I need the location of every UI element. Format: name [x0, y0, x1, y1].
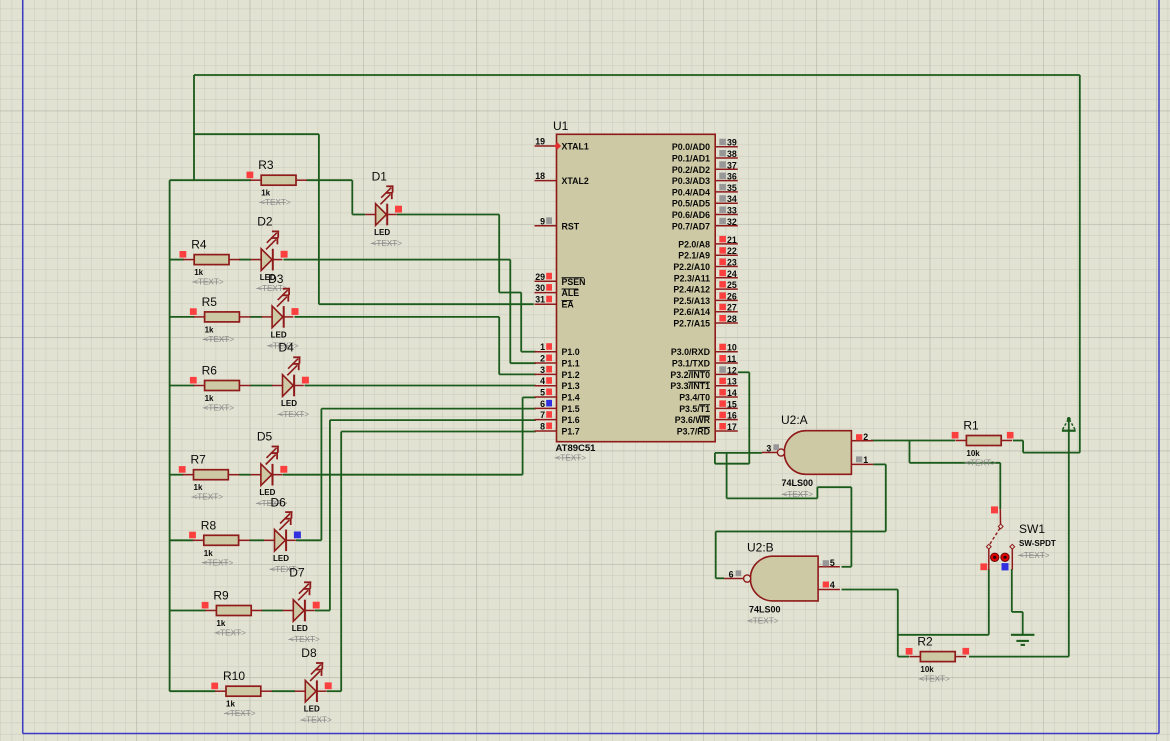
- node D8 cathode state square: [325, 682, 332, 689]
- svg-text:D8: D8: [301, 646, 317, 660]
- svg-text:30: 30: [535, 283, 545, 293]
- pin 36 state square: [719, 173, 726, 180]
- svg-text:D6: D6: [271, 495, 287, 509]
- pin 14 P3.4/T0 stub: [715, 396, 738, 398]
- svg-text:RST: RST: [562, 221, 580, 231]
- pin 3 state square: [546, 366, 552, 373]
- wire anode supply rail vertical: [169, 180, 171, 691]
- svg-text:33: 33: [727, 206, 737, 216]
- sheet border left: [22, 0, 24, 734]
- pin 9 state square: [546, 217, 552, 224]
- svg-text:38: 38: [727, 149, 737, 159]
- svg-text:P1.4: P1.4: [562, 393, 580, 403]
- svg-text:18: 18: [535, 171, 545, 181]
- pin 23 state square: [719, 259, 726, 266]
- wire P1.7 horizontal: [341, 431, 536, 433]
- wire D1 net jog horizontal: [499, 292, 521, 294]
- node D7 cathode state square: [313, 602, 320, 609]
- pin 7 P1.6 stub: [535, 419, 557, 421]
- pin 1 U2:A input stub: [851, 463, 873, 465]
- wire P1.6 horizontal: [330, 419, 536, 421]
- pin 34 state square: [719, 195, 726, 202]
- pin 11 state square: [719, 355, 726, 362]
- pin 29 state square: [546, 273, 552, 280]
- svg-text:D1: D1: [372, 170, 388, 184]
- pin 12 state square: [719, 366, 726, 373]
- wire latch cross jog vertical: [816, 487, 818, 498]
- wire VCC branch to EA horizontal: [194, 133, 319, 135]
- resistor R6: [194, 381, 251, 391]
- node R4 left state square: [180, 251, 187, 258]
- pin 17 state square: [719, 423, 726, 430]
- node D6 cathode state square: [294, 532, 301, 539]
- wire R1 right jog horizontal: [1023, 452, 1080, 454]
- wire D3 cathode horizontal: [295, 316, 500, 318]
- pin 6 state square: [546, 400, 552, 407]
- pin 6 P1.5 stub: [535, 407, 557, 409]
- pin 8 state square: [546, 423, 552, 430]
- pin 19 XTAL1 stub: [535, 145, 557, 147]
- wire D1 anode horizontal: [352, 214, 365, 216]
- node R8 left state square: [189, 532, 196, 539]
- wire U2:A pin1 vertical: [885, 464, 887, 531]
- svg-text:P0.2/AD2: P0.2/AD2: [672, 165, 710, 175]
- pin 38 P0.1/AD1 stub: [715, 157, 738, 159]
- svg-text:P2.7/A15: P2.7/A15: [673, 319, 710, 329]
- pin 27 state square: [719, 304, 726, 311]
- svg-text:LED: LED: [271, 330, 287, 339]
- wire R9 to D7 horizontal: [262, 610, 284, 612]
- wire R2 left stub horizontal: [898, 656, 909, 658]
- svg-text:P2.2/A10: P2.2/A10: [673, 262, 710, 272]
- svg-text:SW-SPDT: SW-SPDT: [1019, 539, 1056, 548]
- pin 31 EA stub: [535, 303, 557, 305]
- node R5 left state square: [190, 308, 197, 315]
- pin 25 P2.4/A12 stub: [715, 288, 738, 290]
- resistor R5: [194, 312, 251, 322]
- svg-text:3: 3: [766, 443, 771, 453]
- svg-text:28: 28: [727, 314, 737, 324]
- wire R6 to D4 horizontal: [250, 385, 273, 387]
- pin 21 state square: [719, 236, 726, 243]
- svg-text:26: 26: [727, 291, 737, 301]
- svg-text:D5: D5: [257, 430, 273, 444]
- svg-text:6: 6: [540, 399, 545, 409]
- svg-text:74LS00: 74LS00: [749, 605, 781, 615]
- svg-text:P2.5/A13: P2.5/A13: [673, 296, 710, 306]
- pin 39 state square: [719, 139, 726, 146]
- svg-text:R7: R7: [191, 453, 207, 467]
- wire U2:A pin2 to R1 horizontal: [871, 440, 955, 442]
- svg-text:6: 6: [729, 569, 734, 579]
- svg-text:R5: R5: [202, 295, 218, 309]
- node D5 cathode state square: [280, 466, 287, 473]
- svg-text:37: 37: [727, 160, 737, 170]
- wire P1.4 vertical: [522, 397, 524, 474]
- svg-text:32: 32: [727, 217, 737, 227]
- pin 28 P2.7/A15 stub: [715, 322, 738, 324]
- wire EA horizontal into pin 31: [319, 303, 534, 305]
- pin 2 state square: [546, 355, 552, 362]
- wire U2:A output jog vertical: [714, 453, 716, 464]
- resistor R1: [955, 436, 1012, 446]
- pin 24 P2.3/A11 stub: [715, 277, 738, 279]
- resistor R3: [250, 175, 307, 185]
- wire ground lead vertical: [1022, 612, 1024, 634]
- pin 5 state square: [546, 389, 552, 396]
- pin 15 P3.5/T1 stub: [715, 407, 738, 409]
- svg-text:23: 23: [727, 258, 737, 268]
- svg-text:P3.2/INT0: P3.2/INT0: [670, 370, 710, 380]
- svg-text:P2.0/A8: P2.0/A8: [678, 239, 710, 249]
- wire U2:B pin4 horizontal: [842, 589, 898, 591]
- wire D1 net vertical: [498, 215, 500, 293]
- svg-text:P3.3/INT1: P3.3/INT1: [670, 381, 710, 391]
- svg-text:34: 34: [727, 194, 737, 204]
- wire ground jog horizontal: [1012, 611, 1023, 613]
- wire R1 right stub horizontal: [1013, 440, 1023, 442]
- svg-text:2: 2: [540, 354, 545, 364]
- pin 31 state square: [546, 296, 552, 303]
- node D4 cathode state square: [302, 377, 309, 384]
- svg-text:1k: 1k: [205, 325, 214, 334]
- node SW1 left contact state square: [980, 563, 987, 570]
- svg-text:D3: D3: [268, 272, 284, 286]
- pin 21 P2.0/A8 stub: [715, 243, 738, 245]
- pin 7 state square: [546, 411, 552, 418]
- svg-text:D2: D2: [257, 215, 273, 229]
- svg-text:ALE: ALE: [562, 288, 580, 298]
- pin 19 connection diamond: [554, 142, 561, 149]
- NAND gate U2:A body: [784, 431, 851, 475]
- svg-text:R3: R3: [258, 158, 274, 172]
- wire SW1 right contact vertical: [1011, 569, 1013, 612]
- svg-text:7: 7: [540, 410, 545, 420]
- svg-text:P2.4/A12: P2.4/A12: [673, 285, 710, 295]
- wire P1.1 stub horizontal: [510, 362, 536, 364]
- svg-text:39: 39: [727, 138, 737, 148]
- node D3 cathode state square: [292, 308, 299, 315]
- resistor R9: [205, 606, 262, 616]
- svg-text:1k: 1k: [261, 189, 270, 198]
- switch SW1: [986, 509, 1014, 569]
- svg-text:P2.1/A9: P2.1/A9: [678, 251, 710, 261]
- svg-text:31: 31: [535, 295, 545, 305]
- sheet border bottom: [23, 733, 1159, 735]
- svg-text:19: 19: [535, 137, 545, 147]
- node D2 cathode state square: [281, 251, 288, 258]
- resistor R10: [215, 686, 272, 696]
- pin 37 state square: [719, 161, 726, 168]
- pin 26 P2.5/A13 stub: [715, 299, 738, 301]
- pin 17 P3.7/RD stub: [715, 430, 738, 432]
- pin 4 U2:B input stub: [818, 589, 840, 591]
- svg-text:13: 13: [727, 377, 737, 387]
- svg-text:P0.4/AD4: P0.4/AD4: [672, 187, 710, 197]
- node R6 left state square: [190, 377, 197, 384]
- pin 12 P3.2/INT0 stub: [715, 373, 738, 375]
- svg-text:LED: LED: [292, 624, 308, 633]
- pin 14 state square: [719, 389, 726, 396]
- pin 22 state square: [719, 247, 726, 254]
- wire SW1 branch vertical: [909, 441, 911, 463]
- svg-text:5: 5: [830, 558, 835, 568]
- pin 27 P2.6/A14 stub: [715, 311, 738, 313]
- svg-text:P1.1: P1.1: [562, 359, 580, 369]
- svg-text:P1.0: P1.0: [562, 347, 580, 357]
- wire R4 to D2 horizontal: [239, 259, 251, 261]
- svg-text:1k: 1k: [216, 619, 225, 628]
- resistor R8: [193, 535, 250, 545]
- pin 4 state square: [823, 582, 829, 588]
- svg-text:29: 29: [535, 272, 545, 282]
- pin 23 P2.2/A10 stub: [715, 266, 738, 268]
- svg-text:R1: R1: [963, 419, 979, 433]
- svg-text:1k: 1k: [205, 394, 214, 403]
- pin 35 P0.4/AD4 stub: [715, 191, 738, 193]
- node R7 left state square: [179, 466, 186, 473]
- svg-text:P3.1/TXD: P3.1/TXD: [672, 359, 710, 369]
- svg-text:16: 16: [727, 411, 737, 421]
- ground: [1011, 635, 1035, 645]
- node R9 left state square: [202, 602, 209, 609]
- pin 25 state square: [719, 281, 726, 288]
- wire R8 to D6 horizontal: [250, 539, 265, 541]
- svg-text:LED: LED: [281, 399, 297, 408]
- pin 15 state square: [719, 400, 726, 407]
- svg-text:10: 10: [727, 343, 737, 353]
- wire U2:B output stub horizontal: [716, 577, 724, 579]
- LED D1: [365, 185, 397, 225]
- svg-text:P3.4/T0: P3.4/T0: [679, 393, 710, 403]
- svg-text:P0.3/AD3: P0.3/AD3: [672, 176, 710, 186]
- svg-text:3: 3: [540, 365, 545, 375]
- svg-text:15: 15: [727, 399, 737, 409]
- pin 34 P0.5/AD5 stub: [715, 202, 738, 204]
- pin 10 state square: [719, 344, 726, 351]
- svg-text:D7: D7: [289, 566, 305, 580]
- wire D7 cathode horizontal: [315, 610, 330, 612]
- LED D4: [272, 356, 304, 396]
- node R2 left state square: [906, 648, 913, 655]
- wire R7 to D5 horizontal: [239, 474, 251, 476]
- pin 11 P3.1/TXD stub: [715, 362, 738, 364]
- pin 35 state square: [719, 184, 726, 191]
- svg-text:P2.6/A14: P2.6/A14: [673, 307, 710, 317]
- pin 37 P0.2/AD2 stub: [715, 168, 738, 170]
- svg-text:LED: LED: [273, 554, 289, 563]
- wire D8 cathode horizontal: [327, 690, 341, 692]
- svg-text:P1.7: P1.7: [562, 427, 580, 437]
- wire R4 row horizontal: [170, 259, 184, 261]
- pin 2 P1.1 stub: [535, 362, 557, 364]
- wire R1 right jog vertical: [1022, 441, 1024, 453]
- wire R5 row horizontal: [170, 316, 195, 318]
- svg-text:R6: R6: [202, 364, 218, 378]
- wire D5 cathode horizontal: [283, 474, 523, 476]
- pin 13 state square: [719, 378, 726, 385]
- wire R5 to D3 horizontal: [250, 316, 262, 318]
- svg-text:36: 36: [727, 172, 737, 182]
- pin 33 P0.6/AD6 stub: [715, 214, 738, 216]
- svg-text:XTAL1: XTAL1: [562, 142, 589, 152]
- pin 16 P3.6/WR stub: [715, 419, 738, 421]
- svg-text:LED: LED: [304, 705, 320, 714]
- wire R3 to D1 horizontal: [307, 179, 353, 181]
- svg-text:P1.3: P1.3: [562, 381, 580, 391]
- svg-text:PSEN: PSEN: [562, 277, 586, 287]
- svg-text:5: 5: [540, 388, 545, 398]
- node R10 left state square: [211, 683, 218, 690]
- svg-text:P3.5/T1: P3.5/T1: [679, 404, 710, 414]
- svg-text:14: 14: [727, 388, 737, 398]
- node R2 right state square: [963, 648, 970, 655]
- wire U2:B pin5 vertical: [850, 487, 852, 567]
- wire P1.0 vertical: [520, 293, 522, 352]
- svg-text:1k: 1k: [226, 700, 235, 709]
- svg-text:AT89C51: AT89C51: [556, 443, 597, 454]
- wire P3.2 stub horizontal: [738, 371, 750, 373]
- wire D1 anode vertical: [351, 180, 353, 214]
- wire SW1 feed horizontal: [910, 462, 1001, 464]
- pin 2 state square: [856, 434, 862, 440]
- pin 36 P0.3/AD3 stub: [715, 180, 738, 182]
- svg-text:10k: 10k: [920, 665, 934, 674]
- wire latch cross horizontal: [727, 497, 818, 499]
- svg-text:24: 24: [727, 269, 737, 279]
- wire SW1 contact net horizontal: [898, 634, 989, 636]
- pin 6 U2:B output stub: [724, 578, 743, 580]
- svg-text:U2:A: U2:A: [781, 413, 808, 427]
- pin 5 P1.4 stub: [535, 396, 557, 398]
- LED D6: [264, 511, 296, 551]
- LED D7: [283, 581, 315, 621]
- pin 5 U2:B input stub: [818, 566, 840, 568]
- pin 24 state square: [719, 270, 726, 277]
- wire P1.0 stub horizontal: [521, 351, 536, 353]
- wire P1.4 horizontal: [523, 396, 536, 398]
- svg-text:4: 4: [540, 376, 545, 386]
- svg-text:22: 22: [727, 246, 737, 256]
- svg-text:12: 12: [727, 365, 737, 375]
- svg-text:1k: 1k: [194, 483, 203, 492]
- wire P1.7 vertical: [340, 432, 342, 692]
- svg-text:35: 35: [727, 183, 737, 193]
- svg-text:D4: D4: [279, 341, 295, 355]
- svg-text:R10: R10: [223, 669, 245, 683]
- node R1 right state square: [1007, 432, 1014, 439]
- LED D3: [262, 288, 294, 328]
- NAND gate U2:B body: [750, 556, 818, 601]
- pin 4 state square: [546, 377, 552, 384]
- IC U1 AT89C51 body: [557, 134, 716, 441]
- wire VCC left drop vertical: [193, 75, 195, 180]
- svg-text:P0.7/AD7: P0.7/AD7: [672, 221, 710, 231]
- pin 16 state square: [719, 412, 726, 419]
- pin 6 state square: [736, 570, 742, 576]
- svg-text:EA: EA: [562, 300, 575, 310]
- svg-text:1k: 1k: [204, 549, 213, 558]
- wire VCC top rail horizontal: [194, 74, 1080, 76]
- wire U2:A pin1 stub horizontal: [873, 463, 886, 465]
- svg-text:17: 17: [727, 422, 737, 432]
- pin 3 U2:A output stub: [762, 452, 778, 454]
- node D1 cathode state square: [395, 206, 402, 213]
- pin 8 P1.7 stub: [535, 430, 557, 432]
- wire P1.5 vertical: [320, 409, 322, 541]
- pin 10 P3.0/RXD stub: [715, 351, 738, 353]
- pin 13 P3.3/INT1 stub: [715, 385, 738, 387]
- wire U2:B pin5 stub horizontal: [842, 566, 852, 568]
- pin 28 state square: [719, 315, 726, 322]
- wire latch cross jog horizontal: [817, 486, 851, 488]
- pin 32 P0.7/AD7 stub: [715, 225, 738, 227]
- wire R8 row horizontal: [170, 539, 194, 541]
- svg-text:4: 4: [830, 580, 835, 590]
- NAND gate U2:B output bubble: [744, 575, 751, 582]
- svg-text:8: 8: [540, 422, 545, 432]
- NAND gate U2:A output bubble: [777, 449, 784, 456]
- pin 30 state square: [546, 284, 552, 291]
- svg-text:P0.6/AD6: P0.6/AD6: [672, 210, 710, 220]
- pin 4 P1.3 stub: [535, 385, 557, 387]
- pin 3 P1.2 stub: [535, 373, 557, 375]
- svg-text:P1.5: P1.5: [562, 404, 580, 414]
- resistor R2: [909, 652, 966, 662]
- svg-text:9: 9: [540, 216, 545, 226]
- svg-text:27: 27: [727, 303, 737, 313]
- wire D1 cathode horizontal: [397, 214, 499, 216]
- wire R9 row horizontal: [170, 610, 206, 612]
- resistor R7: [183, 470, 240, 480]
- wire R6 row horizontal: [170, 385, 195, 387]
- pin 2 U2:A input stub: [851, 440, 873, 442]
- svg-text:P0.1/AD1: P0.1/AD1: [672, 154, 710, 164]
- svg-text:P3.0/RXD: P3.0/RXD: [671, 347, 710, 357]
- wire SW1 pole vertical: [999, 463, 1001, 509]
- wire R10 to D8 horizontal: [272, 690, 296, 692]
- pin 22 P2.1/A9 stub: [715, 254, 738, 256]
- pin 9 RST stub: [535, 225, 557, 227]
- wire P3.2 feedback vertical: [748, 372, 750, 463]
- LED D8: [295, 662, 327, 702]
- wire D6 cathode horizontal: [296, 539, 321, 541]
- wire D2 cathode horizontal: [284, 259, 511, 261]
- wire P1.2 stub horizontal: [499, 373, 536, 375]
- svg-text:P3.7/RD: P3.7/RD: [677, 427, 710, 437]
- svg-text:U1: U1: [553, 119, 569, 133]
- pin 29 PSEN stub: [535, 280, 557, 282]
- wire latch cross branch vertical: [726, 453, 728, 499]
- svg-text:LED: LED: [374, 228, 390, 237]
- svg-text:11: 11: [727, 354, 736, 364]
- wire VCC right drop vertical: [1079, 75, 1081, 453]
- pin 39 P0.0/AD0 stub: [715, 146, 738, 148]
- wire U2:B output vertical: [715, 532, 717, 579]
- svg-text:R8: R8: [201, 518, 217, 532]
- svg-text:21: 21: [727, 235, 737, 245]
- svg-text:SW1: SW1: [1019, 522, 1045, 536]
- wire SW1 left contact vertical: [988, 569, 990, 635]
- svg-text:XTAL2: XTAL2: [562, 176, 589, 186]
- node SW1 right contact state square: [1002, 563, 1009, 570]
- LED D2: [251, 231, 283, 271]
- svg-text:P0.5/AD5: P0.5/AD5: [672, 199, 710, 209]
- pin 38 state square: [719, 150, 726, 157]
- svg-text:R9: R9: [213, 589, 229, 603]
- svg-text:10k: 10k: [966, 449, 980, 458]
- power terminal VCC arrow: [1062, 417, 1076, 431]
